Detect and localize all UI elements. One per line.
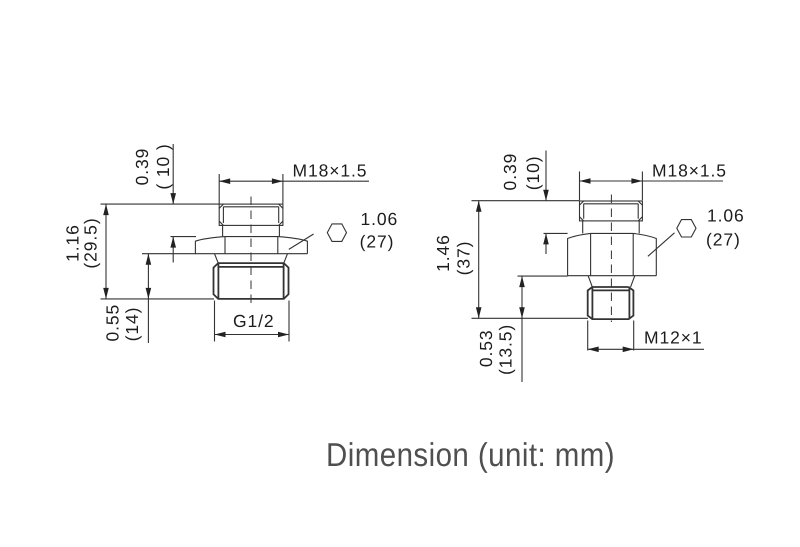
- arrow 0.55 top: [146, 254, 152, 265]
- svg-text:(10): (10): [523, 156, 543, 191]
- svg-text:M18×1.5: M18×1.5: [652, 160, 727, 180]
- arrow 0.39 up: [170, 237, 176, 248]
- arrow M18 right-right: [631, 178, 642, 184]
- right center line: [610, 195, 612, 323]
- svg-text:0.39: 0.39: [132, 148, 152, 186]
- left bottom thread G1/2 body: [214, 263, 289, 299]
- right hex nut: [568, 233, 657, 275]
- svg-text:Dimension (unit: mm): Dimension (unit: mm): [326, 436, 615, 473]
- arrow 1.16 top: [103, 204, 109, 215]
- left hex symbol: [327, 224, 346, 242]
- svg-text:1.06: 1.06: [361, 209, 399, 229]
- arrow G1/2 right: [278, 332, 289, 338]
- arrow 0.39 up right: [543, 233, 549, 244]
- svg-text:1.16: 1.16: [63, 224, 83, 262]
- right hex symbol: [677, 220, 696, 237]
- left dim 1.16 line: [105, 204, 107, 299]
- svg-text:(27): (27): [360, 231, 395, 251]
- texts left: [63, 143, 398, 341]
- svg-text:M12×1: M12×1: [644, 328, 703, 348]
- left hex leader line: [289, 234, 314, 249]
- right top thread M18 body: [580, 201, 643, 221]
- left hex nut: [195, 237, 307, 254]
- arrow M18 right: [272, 178, 283, 184]
- svg-text:( 10 ): ( 10 ): [153, 143, 173, 189]
- right hex-bottom extension line: [518, 275, 568, 277]
- left neck: [223, 225, 280, 236]
- left G1/2 dim line: [215, 334, 290, 336]
- right M12 dim extension lines: [588, 321, 634, 351]
- right top extension line: [472, 200, 580, 202]
- arrow 1.16 bottom: [103, 288, 109, 299]
- arrow 1.46 top: [476, 201, 482, 212]
- texts right: [433, 153, 744, 375]
- arrow 0.53 bottom: [519, 307, 525, 318]
- left washer cone: [215, 254, 288, 263]
- left hex-top extension line: [171, 236, 197, 238]
- right M12 dim line: [588, 348, 704, 350]
- svg-text:(14): (14): [122, 307, 142, 342]
- left top extension line: [101, 203, 220, 205]
- svg-text:0.55: 0.55: [103, 304, 123, 342]
- left center line: [250, 197, 252, 304]
- arrows right: [476, 178, 643, 352]
- svg-text:(29.5): (29.5): [81, 217, 101, 268]
- right bottom extension line: [472, 317, 589, 319]
- right M18 dim line: [580, 180, 724, 182]
- arrow 0.39 down: [170, 193, 176, 204]
- svg-text:G1/2: G1/2: [233, 311, 275, 331]
- svg-text:1.06: 1.06: [707, 206, 745, 226]
- arrow 0.39 down right: [543, 190, 549, 201]
- svg-text:0.39: 0.39: [500, 153, 520, 191]
- right dim 1.46 line: [478, 201, 480, 319]
- right hex-top extension line: [544, 232, 568, 234]
- svg-text:0.53: 0.53: [476, 329, 496, 367]
- right hex leader line: [648, 233, 675, 256]
- left M18 dim extension lines: [219, 174, 283, 204]
- left dim 0.39 line: [172, 144, 174, 263]
- svg-text:(27): (27): [706, 230, 741, 250]
- left bottom extension line: [101, 298, 215, 300]
- svg-text:M18×1.5: M18×1.5: [293, 161, 368, 181]
- arrow 0.53 top: [519, 276, 525, 287]
- svg-text:(13.5): (13.5): [496, 324, 516, 375]
- arrow M12 right: [623, 347, 634, 353]
- arrow G1/2 left: [215, 332, 226, 338]
- arrow M18 left: [219, 178, 230, 184]
- svg-text:(37): (37): [454, 241, 474, 276]
- right M18 dim extension lines: [580, 172, 643, 201]
- left dim 0.55 line: [147, 254, 149, 343]
- right bottom thread M12 body: [588, 287, 634, 319]
- left G1/2 dim extension lines: [215, 301, 290, 342]
- left washer-bottom extension line: [142, 253, 196, 255]
- right neck: [583, 221, 640, 234]
- right cone: [588, 276, 635, 287]
- arrows left: [103, 178, 289, 337]
- arrow 1.46 bottom: [476, 307, 482, 318]
- svg-text:1.46: 1.46: [433, 234, 453, 272]
- left top thread M18 body: [219, 204, 283, 225]
- arrow 0.55 bottom: [146, 288, 152, 299]
- arrow M12 left: [588, 347, 599, 353]
- right dim 0.53 line: [521, 276, 523, 382]
- left M18 dim line: [219, 180, 369, 182]
- right dim 0.39 line: [545, 151, 547, 255]
- arrow M18 right-left: [580, 178, 591, 184]
